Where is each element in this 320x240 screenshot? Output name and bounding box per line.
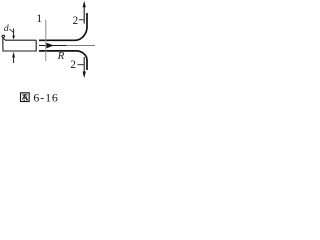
svg-text:2: 2 [70, 59, 76, 71]
svg-text:1: 1 [36, 11, 42, 25]
svg-text:R: R [57, 50, 65, 62]
svg-text:6-16: 6-16 [33, 91, 58, 105]
svg-text:d: d [4, 24, 9, 34]
svg-text:2: 2 [73, 15, 79, 27]
